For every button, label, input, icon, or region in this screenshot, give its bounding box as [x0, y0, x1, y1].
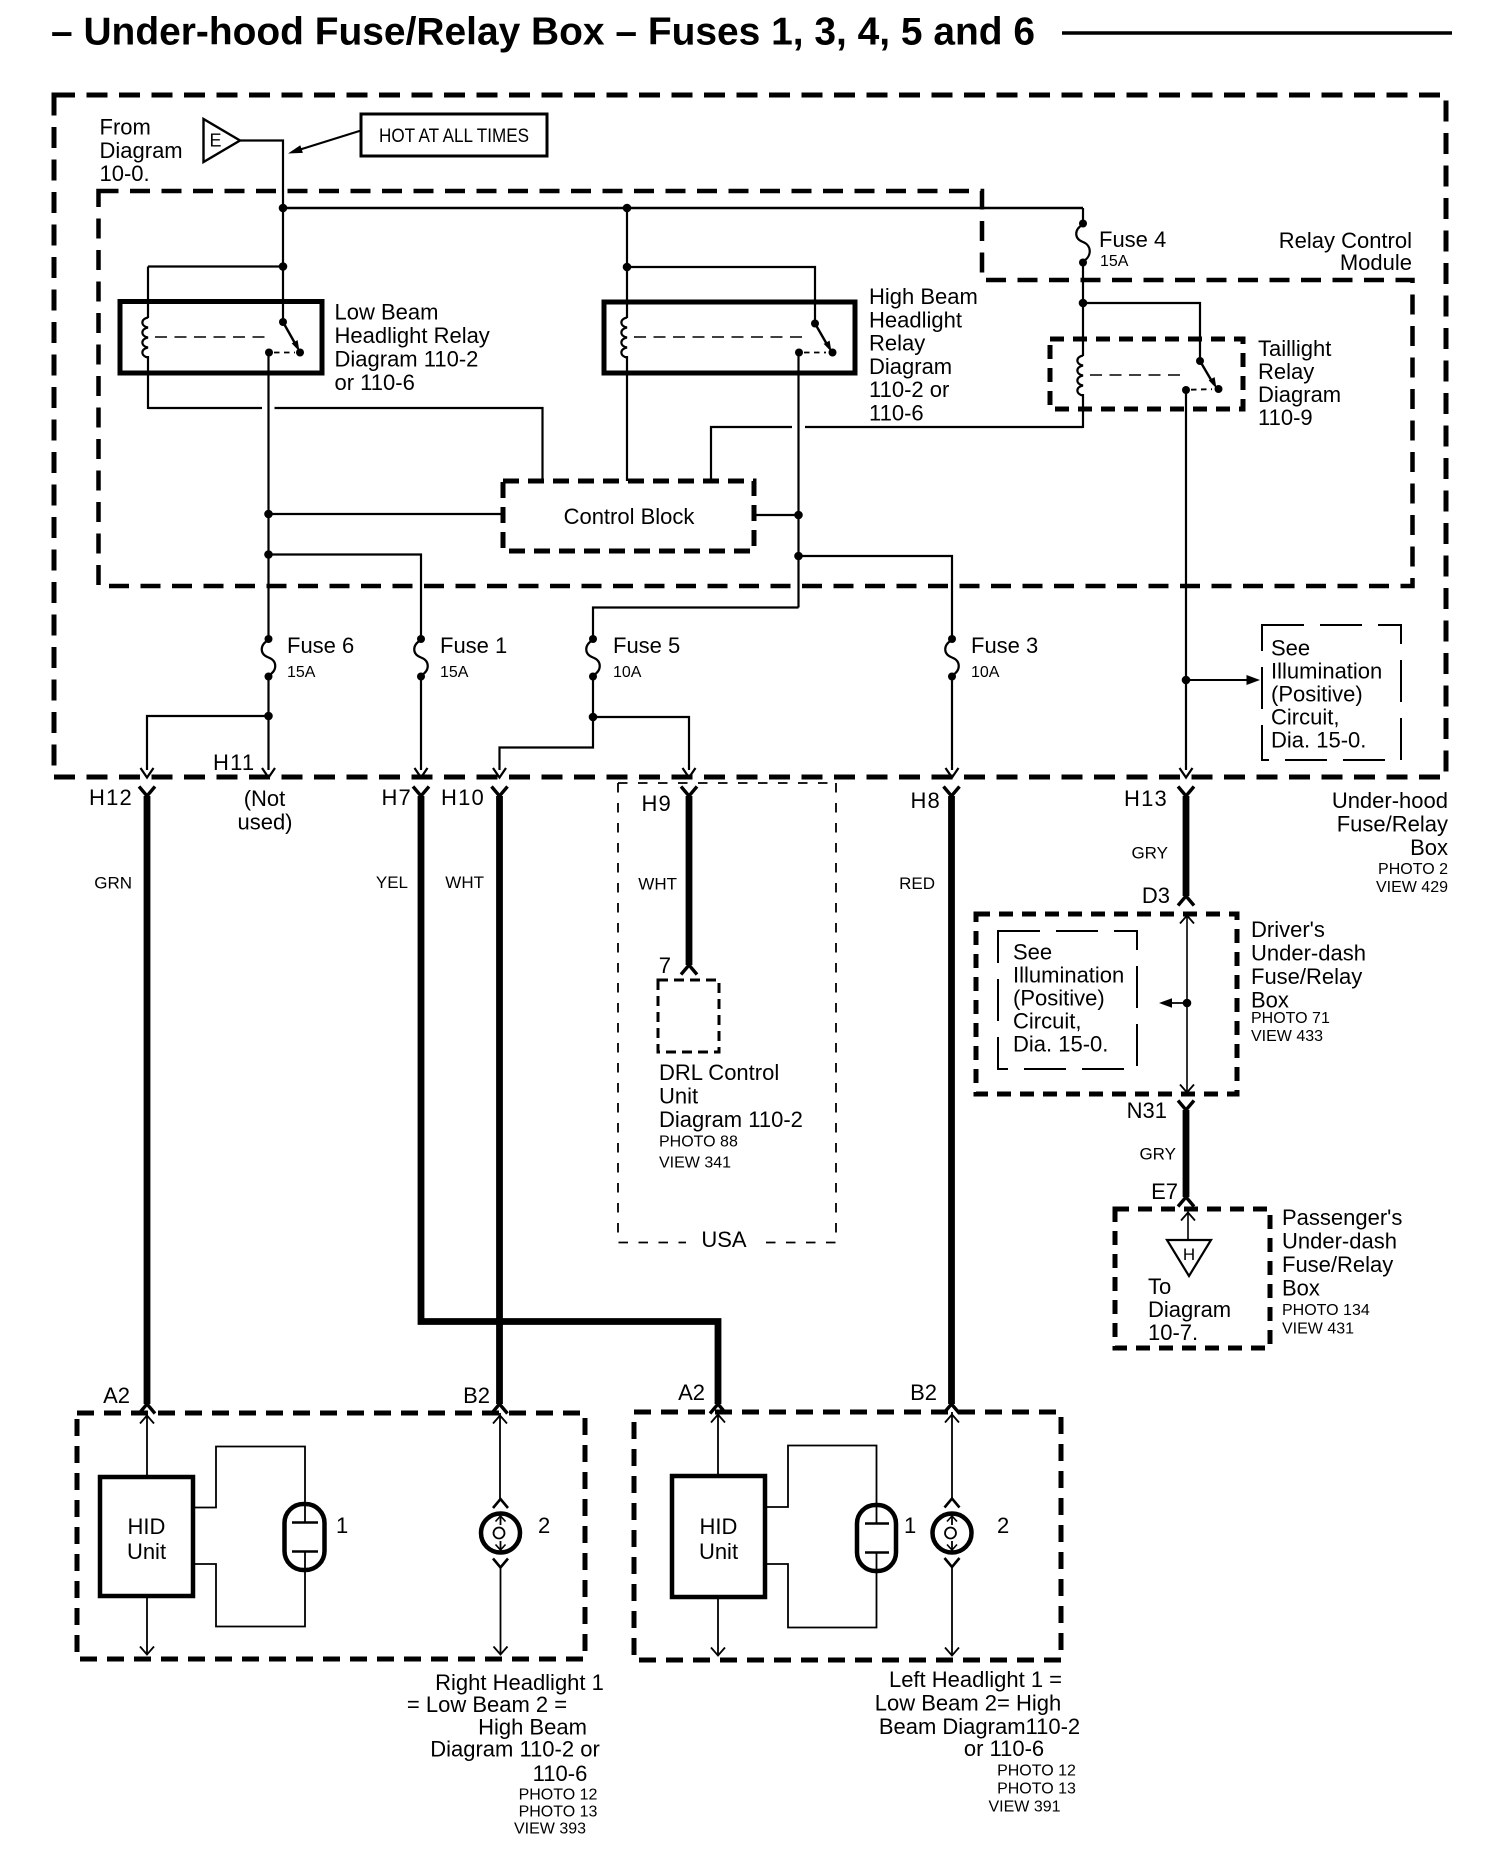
- svg-text:110-6: 110-6: [533, 1761, 588, 1786]
- wire to control block left: [269, 513, 504, 515]
- svg-text:Low Beam: Low Beam: [335, 300, 439, 325]
- svg-text:D3: D3: [1142, 883, 1170, 908]
- taillight relay switch NO contact: [1215, 385, 1223, 393]
- USA region box (thin dashed): [618, 782, 836, 784]
- wire coil lower lead: [147, 356, 149, 409]
- connector H7: [413, 787, 429, 797]
- svg-text:Relay: Relay: [1258, 359, 1314, 384]
- svg-text:PHOTO 13: PHOTO 13: [519, 1804, 598, 1821]
- svg-text:Unit: Unit: [699, 1539, 738, 1564]
- wire H12 GRN to right headlight A2: [144, 796, 151, 1404]
- control block box (dashed): [503, 481, 754, 551]
- junction bus / low beam relay feed: [279, 204, 288, 213]
- svg-text:Diagram: Diagram: [1148, 1297, 1231, 1322]
- svg-text:Fuse 6: Fuse 6: [287, 633, 354, 658]
- wire bus to high beam relay coil: [626, 208, 628, 318]
- svg-text:VIEW 391: VIEW 391: [988, 1799, 1060, 1816]
- node E (power feed from diagram 10-0): [204, 119, 241, 162]
- wire bus to fuse 4: [1082, 208, 1084, 224]
- svg-text:PHOTO 2: PHOTO 2: [1378, 861, 1448, 878]
- svg-text:GRY: GRY: [1131, 844, 1168, 863]
- HID unit (right): [100, 1477, 193, 1596]
- svg-text:PHOTO 12: PHOTO 12: [997, 1763, 1076, 1780]
- junction fuse 1 tap: [264, 550, 273, 559]
- wire fuse 6 to H11: [267, 677, 269, 771]
- passenger's under-dash fuse/relay box (dashed): [1115, 1209, 1270, 1348]
- wire H9 WHT to DRL control unit pin 7: [686, 796, 693, 965]
- svg-text:= Low Beam 2 =: = Low Beam 2 =: [407, 1692, 567, 1717]
- svg-text:RED: RED: [899, 874, 935, 893]
- wire HID to bulb 1 (left, upper): [765, 1446, 877, 1508]
- svg-text:E7: E7: [1151, 1179, 1178, 1204]
- high beam relay switch common contact: [811, 320, 819, 328]
- svg-text:H10: H10: [441, 785, 485, 810]
- svg-text:See: See: [1271, 636, 1310, 661]
- svg-text:10-7.: 10-7.: [1148, 1320, 1198, 1345]
- wire B2 to bulb 2 (right): [499, 1413, 501, 1499]
- wire A2 to HID unit: [146, 1413, 148, 1477]
- svg-text:Module: Module: [1340, 250, 1412, 275]
- wire fuse 1 to H7: [420, 677, 422, 771]
- svg-text:Fuse/Relay: Fuse/Relay: [1337, 812, 1448, 837]
- svg-text:10A: 10A: [613, 664, 642, 681]
- svg-text:H8: H8: [910, 788, 941, 813]
- svg-text:used): used): [237, 810, 292, 835]
- bulb 2 left headlight (high beam): [945, 1499, 960, 1508]
- svg-text:Headlight Relay: Headlight Relay: [335, 323, 490, 348]
- svg-text:Driver's: Driver's: [1251, 917, 1325, 942]
- svg-text:To: To: [1148, 1274, 1171, 1299]
- svg-text:15A: 15A: [1100, 253, 1129, 270]
- svg-text:USA: USA: [701, 1227, 747, 1252]
- taillight relay switch common contact: [1196, 357, 1204, 365]
- svg-text:GRN: GRN: [94, 874, 132, 893]
- svg-text:B2: B2: [910, 1380, 937, 1405]
- svg-text:WHT: WHT: [638, 875, 677, 894]
- high beam relay switch NO contact: [829, 349, 837, 357]
- svg-text:Illumination: Illumination: [1271, 659, 1382, 684]
- svg-text:(Positive): (Positive): [1013, 986, 1105, 1011]
- svg-text:Unit: Unit: [127, 1539, 166, 1564]
- svg-text:15A: 15A: [440, 664, 469, 681]
- high beam relay coil: [621, 318, 627, 358]
- taillight relay linkage (dashed): [1090, 374, 1185, 376]
- wire taillight coil lower lead: [1082, 394, 1084, 428]
- svg-text:GRY: GRY: [1139, 1145, 1176, 1164]
- junction bus / high beam relay feed: [623, 204, 632, 213]
- taillight relay coil: [1077, 356, 1083, 396]
- svg-text:DRL Control: DRL Control: [659, 1060, 779, 1085]
- wire H7 YEL to left headlight A2: [421, 796, 718, 1404]
- svg-text:VIEW 341: VIEW 341: [659, 1155, 731, 1172]
- bulb 1 left headlight (HID low beam): [857, 1505, 896, 1571]
- wire HID to bulb 1 (right, upper): [193, 1447, 305, 1508]
- fuse F5 10A: [589, 635, 597, 643]
- svg-text:A2: A2: [103, 1383, 130, 1408]
- high beam headlight relay box: [604, 302, 855, 373]
- svg-text:N31: N31: [1127, 1098, 1167, 1123]
- svg-text:2: 2: [997, 1513, 1009, 1538]
- svg-text:Low Beam 2= High: Low Beam 2= High: [875, 1691, 1062, 1716]
- svg-text:Diagram 110-2 or: Diagram 110-2 or: [430, 1737, 600, 1762]
- wire H13 GRY to D3: [1183, 796, 1190, 896]
- svg-text:Under-dash: Under-dash: [1282, 1229, 1397, 1254]
- svg-text:Fuse/Relay: Fuse/Relay: [1251, 964, 1362, 989]
- junction H12 tap: [264, 712, 273, 721]
- connector H12: [139, 787, 155, 797]
- taillight relay switch output contact: [1182, 386, 1190, 394]
- connector H10: [492, 787, 508, 797]
- bulb 2 right headlight (high beam): [493, 1499, 508, 1508]
- junction high beam switch tap: [623, 263, 632, 272]
- taillight relay switch arm: [1200, 361, 1214, 384]
- svg-text:Taillight: Taillight: [1258, 336, 1331, 361]
- svg-text:A2: A2: [678, 1380, 705, 1405]
- fuse F3 10A: [948, 635, 956, 643]
- svg-text:10A: 10A: [971, 664, 1000, 681]
- svg-text:Diagram 110-2: Diagram 110-2: [335, 347, 479, 372]
- wire low beam switch output: [267, 353, 269, 642]
- svg-text:VIEW 431: VIEW 431: [1282, 1321, 1354, 1338]
- fuse F6 15A: [265, 635, 273, 643]
- svg-text:Illumination: Illumination: [1013, 963, 1124, 988]
- svg-text:110-6: 110-6: [869, 401, 924, 426]
- left headlight box (dashed): [634, 1412, 1061, 1660]
- svg-text:Diagram: Diagram: [1258, 382, 1341, 407]
- svg-text:Control Block: Control Block: [564, 504, 696, 529]
- wire low beam coil feed: [148, 267, 283, 319]
- low beam headlight relay box: [120, 302, 322, 374]
- high beam relay linkage (dashed): [634, 336, 802, 338]
- junction control block left: [264, 510, 273, 519]
- svg-text:2: 2: [538, 1513, 550, 1538]
- arrow to see illumination (lower): [1168, 1002, 1187, 1004]
- wire high beam coil to control block: [626, 356, 628, 481]
- wire E to bus: [239, 141, 283, 210]
- wire N31 GRY to E7: [1183, 1110, 1190, 1197]
- junction illumination tap: [1183, 999, 1192, 1008]
- svg-text:H12: H12: [89, 785, 133, 810]
- svg-text:HOT AT ALL TIMES: HOT AT ALL TIMES: [379, 125, 529, 147]
- svg-text:110-2 or: 110-2 or: [869, 377, 949, 402]
- right headlight box (dashed): [77, 1413, 585, 1659]
- connector H13: [1178, 787, 1194, 797]
- callout HOT AT ALL TIMES: [361, 114, 547, 156]
- wire taillight output to H13: [1185, 390, 1187, 770]
- wire to fuse 5: [593, 608, 799, 642]
- low beam relay linkage (dashed): [155, 336, 271, 338]
- svg-text:PHOTO 71: PHOTO 71: [1251, 1010, 1330, 1027]
- low beam relay switch NO contact: [296, 349, 304, 357]
- wire to H12: [147, 716, 269, 770]
- wire fuse 3 to H8: [951, 677, 953, 771]
- HID unit (left): [672, 1476, 765, 1597]
- svg-text:Diagram: Diagram: [100, 138, 183, 163]
- wire A2 to HID unit (left): [717, 1412, 719, 1476]
- svg-text:PHOTO 88: PHOTO 88: [659, 1134, 738, 1151]
- low beam relay contact dash: [274, 352, 295, 354]
- junction H10 tap: [589, 713, 598, 722]
- wire B2 to bulb 2 (left): [951, 1412, 953, 1498]
- svg-text:or 110-6: or 110-6: [964, 1736, 1044, 1761]
- wire HID to bulb 1 (right, lower): [193, 1564, 305, 1627]
- see illumination circuit box (lower): [998, 931, 1137, 1069]
- svg-text:PHOTO 13: PHOTO 13: [997, 1781, 1076, 1798]
- fuse F4 15A: [1079, 220, 1087, 228]
- svg-text:YEL: YEL: [376, 873, 408, 892]
- svg-text:Fuse 3: Fuse 3: [971, 633, 1038, 658]
- svg-text:110-9: 110-9: [1258, 405, 1313, 430]
- svg-text:PHOTO 12: PHOTO 12: [519, 1787, 598, 1804]
- high beam relay switch output contact: [795, 349, 803, 357]
- svg-text:or 110-6: or 110-6: [335, 370, 415, 395]
- svg-text:Dia. 15-0.: Dia. 15-0.: [1013, 1032, 1108, 1057]
- wire into passenger's box: [1187, 1209, 1189, 1240]
- under-hood fuse/relay box (outer dashed boundary): [54, 95, 1446, 777]
- wire high beam switch output: [797, 353, 799, 608]
- driver's under-dash fuse/relay box (dashed): [976, 914, 1237, 1094]
- wire low beam coil to control block: [148, 408, 543, 481]
- svg-text:Headlight: Headlight: [869, 307, 962, 332]
- svg-text:1: 1: [904, 1513, 916, 1538]
- svg-text:Left Headlight 1 =: Left Headlight 1 =: [889, 1667, 1062, 1692]
- junction control block right: [794, 511, 803, 520]
- wire control block right: [754, 514, 799, 516]
- svg-text:Circuit,: Circuit,: [1271, 705, 1339, 730]
- svg-text:B2: B2: [463, 1383, 490, 1408]
- svg-text:VIEW 429: VIEW 429: [1376, 879, 1448, 896]
- high beam relay contact dash: [804, 352, 826, 354]
- svg-text:Box: Box: [1410, 835, 1448, 860]
- svg-text:(Not: (Not: [244, 786, 286, 811]
- svg-text:15A: 15A: [287, 664, 316, 681]
- junction fuse 3 tap: [794, 552, 803, 561]
- wire fuse 4 to taillight coil: [1082, 263, 1084, 357]
- taillight relay contact dash: [1191, 388, 1212, 391]
- wire to fuse 3: [799, 556, 953, 641]
- svg-text:Relay: Relay: [869, 331, 925, 356]
- svg-text:1: 1: [336, 1513, 348, 1538]
- svg-text:(Positive): (Positive): [1271, 682, 1363, 707]
- wire HID unit to ground (left): [717, 1597, 719, 1656]
- junction see-illumination tap: [1182, 676, 1191, 685]
- svg-text:Under-dash: Under-dash: [1251, 941, 1366, 966]
- svg-text:WHT: WHT: [445, 873, 484, 892]
- svg-text:Diagram: Diagram: [869, 354, 952, 379]
- svg-text:H13: H13: [1124, 786, 1168, 811]
- svg-text:Fuse 5: Fuse 5: [613, 633, 680, 658]
- wire HID unit to ground (right): [146, 1596, 148, 1655]
- high beam relay switch arm: [815, 324, 829, 348]
- svg-text:10-0.: 10-0.: [100, 161, 150, 186]
- see illumination circuit box (upper): [1262, 625, 1401, 760]
- svg-text:H7: H7: [381, 785, 412, 810]
- wire high beam switch feed: [627, 267, 815, 325]
- svg-text:Dia. 15-0.: Dia. 15-0.: [1271, 728, 1366, 753]
- wire bulb 2 to ground (left): [951, 1567, 953, 1656]
- title rule: [1062, 31, 1452, 35]
- wire to fuse 1: [269, 555, 422, 642]
- svg-text:VIEW 433: VIEW 433: [1251, 1028, 1323, 1045]
- svg-text:Fuse/Relay: Fuse/Relay: [1282, 1252, 1393, 1277]
- svg-text:H11: H11: [213, 750, 255, 775]
- low beam relay switch arm: [283, 322, 297, 346]
- fuse F1 15A: [417, 635, 425, 643]
- wire taillight coil to control block: [711, 427, 1083, 481]
- low beam relay coil: [142, 318, 148, 358]
- wire bulb 2 to ground (right): [500, 1568, 502, 1655]
- wire HID to bulb 1 (left, lower): [765, 1564, 877, 1628]
- wire main hot bus: [283, 207, 1083, 210]
- svg-text:Under-hood: Under-hood: [1332, 788, 1448, 813]
- wire through driver's box: [1186, 914, 1188, 1093]
- svg-text:H9: H9: [641, 791, 672, 816]
- svg-text:Fuse 4: Fuse 4: [1099, 227, 1166, 252]
- svg-text:VIEW 393: VIEW 393: [514, 1821, 586, 1838]
- svg-text:See: See: [1013, 940, 1052, 965]
- svg-text:High Beam: High Beam: [869, 284, 978, 309]
- svg-text:HID: HID: [700, 1514, 738, 1539]
- arrow to see illumination circuit: [1186, 679, 1250, 681]
- svg-text:Passenger's: Passenger's: [1282, 1205, 1402, 1230]
- connector N31: [1178, 1101, 1194, 1111]
- svg-text:H: H: [1183, 1245, 1195, 1264]
- relay control module box (inner dashed boundary): [99, 191, 1413, 586]
- svg-text:Fuse 1: Fuse 1: [440, 633, 507, 658]
- svg-text:Unit: Unit: [659, 1084, 698, 1109]
- svg-text:Box: Box: [1251, 988, 1289, 1013]
- svg-text:From: From: [100, 115, 151, 140]
- svg-text:HID: HID: [128, 1514, 166, 1539]
- svg-text:7: 7: [659, 953, 671, 978]
- svg-text:Diagram 110-2: Diagram 110-2: [659, 1107, 803, 1132]
- low beam relay switch output contact: [265, 349, 273, 357]
- svg-text:PHOTO 134: PHOTO 134: [1282, 1302, 1370, 1319]
- svg-text:– Under-hood Fuse/Relay Box –: – Under-hood Fuse/Relay Box – Fuses 1, 3…: [51, 11, 1035, 54]
- junction low beam coil tap: [279, 262, 288, 271]
- wire taillight switch feed: [1083, 303, 1200, 361]
- callout arrow to wire: [297, 131, 361, 151]
- wire to H10: [500, 717, 594, 770]
- svg-text:Box: Box: [1282, 1276, 1320, 1301]
- bulb 1 right headlight (HID low beam): [285, 1504, 325, 1570]
- taillight relay box (dashed): [1050, 339, 1243, 409]
- wire H8 RED to left headlight B2: [948, 796, 955, 1404]
- node H (to diagram 10-7): [1167, 1240, 1211, 1276]
- connector H8: [944, 787, 960, 797]
- wire fuse 5 to H9: [593, 677, 689, 771]
- svg-text:Circuit,: Circuit,: [1013, 1009, 1081, 1034]
- low beam relay switch common contact: [279, 318, 287, 326]
- connector H9: [681, 787, 697, 797]
- DRL control unit box (dashed): [658, 980, 719, 1052]
- wire bus to low beam relay switch: [282, 208, 284, 324]
- wire H10 WHT to right headlight B2: [496, 796, 503, 1404]
- svg-text:E: E: [209, 131, 221, 151]
- junction taillight switch tap: [1079, 299, 1088, 308]
